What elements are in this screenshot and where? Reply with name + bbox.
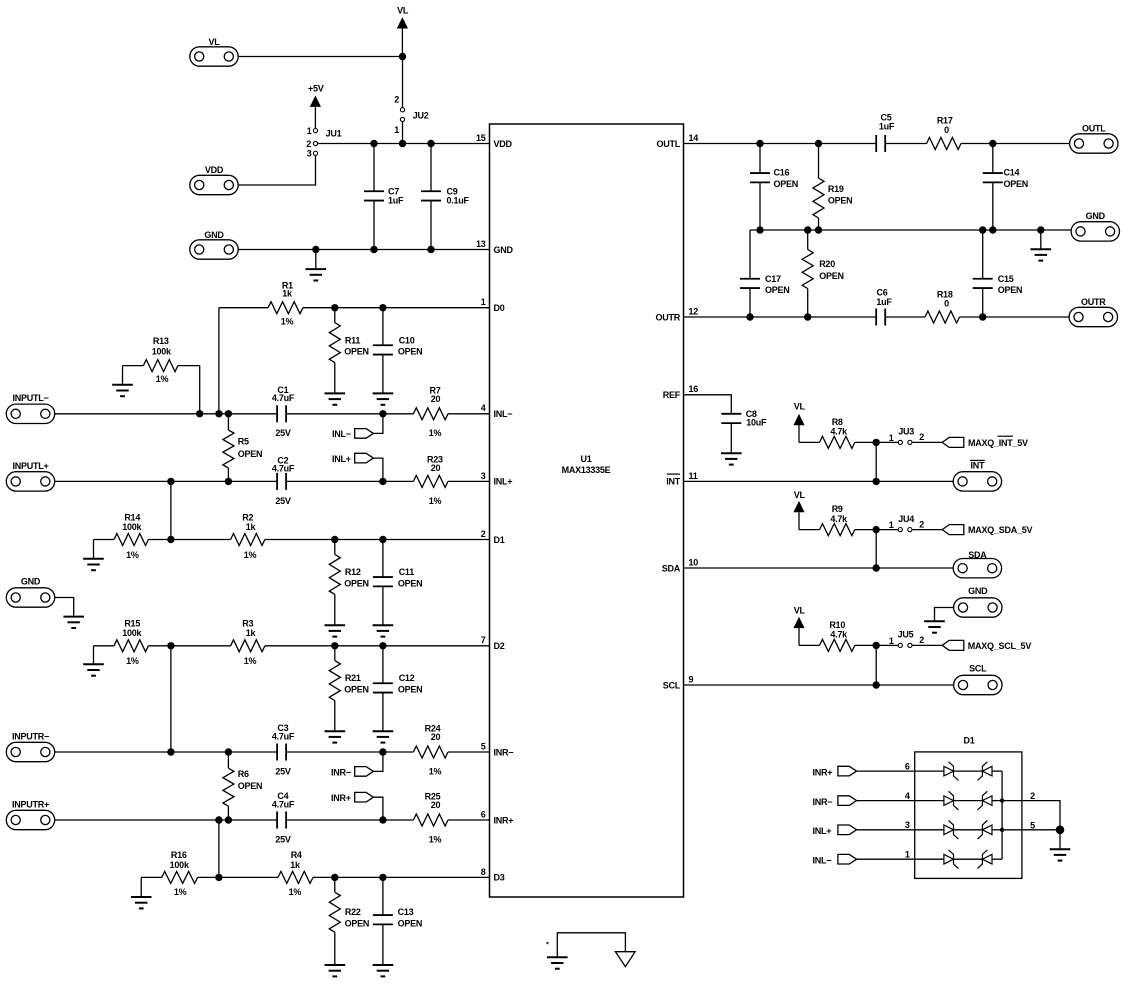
wire D1 to ground <box>1059 830 1061 849</box>
svg-text:OPEN: OPEN <box>345 918 370 928</box>
power flag VL at R9 <box>793 490 805 530</box>
svg-text:JU5: JU5 <box>898 630 914 640</box>
svg-text:4.7k: 4.7k <box>830 427 848 437</box>
diode pair D1 row 3 <box>944 821 1002 840</box>
ground symbol GND rail <box>306 250 327 281</box>
svg-text:1%: 1% <box>156 374 169 384</box>
svg-text:1%: 1% <box>289 887 302 897</box>
junction D0-R11 <box>331 304 338 311</box>
svg-text:100k: 100k <box>122 628 142 638</box>
wire INPUTL+ to C2 <box>55 480 277 482</box>
ground symbol bottom left <box>547 957 568 968</box>
node INL+ flag to D1 <box>813 820 944 836</box>
wire GND rail <box>238 249 489 251</box>
capacitor C11 OPEN <box>373 540 423 626</box>
wire R17 to OUTL pad <box>961 143 1070 145</box>
wire VL pad to JU2 node <box>238 56 402 58</box>
svg-text:20: 20 <box>431 800 441 810</box>
svg-text:VDD: VDD <box>205 165 224 175</box>
resistor R5 OPEN <box>223 414 262 482</box>
svg-text:1%: 1% <box>429 428 442 438</box>
wire SDA pin 10 to pad <box>684 567 954 569</box>
ground symbol under C8 <box>721 453 742 464</box>
junction D1-R12 <box>331 536 338 543</box>
svg-text:OPEN: OPEN <box>344 685 369 695</box>
power flag VL top <box>397 6 409 57</box>
wire R15 to R3 <box>148 645 230 647</box>
wire VL to R9 <box>799 529 820 531</box>
svg-text:1%: 1% <box>126 550 139 560</box>
ground symbol at GND pad left <box>63 617 84 628</box>
resistor R8 <box>820 417 855 449</box>
junction R8-JU3 <box>873 439 880 446</box>
svg-text:12: 12 <box>689 306 699 316</box>
svg-text:INL+: INL+ <box>813 826 832 836</box>
wire GND pad mid to ground <box>935 608 954 622</box>
wire INR+ node down to D3 row <box>218 820 220 877</box>
wire INPUTR- to C3 <box>55 751 277 753</box>
svg-text:R3: R3 <box>242 619 253 629</box>
svg-text:9: 9 <box>689 674 694 684</box>
svg-text:13: 13 <box>476 239 486 249</box>
connector SDA pad <box>953 550 1001 578</box>
svg-text:SDA: SDA <box>662 563 681 573</box>
junction SDA <box>873 564 880 571</box>
svg-text:1: 1 <box>307 126 312 136</box>
svg-text:2: 2 <box>394 95 399 105</box>
svg-text:0: 0 <box>944 125 949 135</box>
jumper JU4 <box>889 514 925 532</box>
svg-text:1k: 1k <box>290 860 301 870</box>
ground symbol under C11 <box>373 625 394 636</box>
svg-text:4.7uF: 4.7uF <box>272 799 295 809</box>
svg-text:2: 2 <box>919 635 924 645</box>
svg-text:INL−: INL− <box>332 429 351 439</box>
svg-text:OPEN: OPEN <box>344 579 369 589</box>
junction INR+-R6 <box>225 816 232 823</box>
junction OUTR-C17 <box>746 313 753 320</box>
svg-text:0.1uF: 0.1uF <box>447 196 470 206</box>
resistor R13 <box>123 336 200 385</box>
svg-text:R9: R9 <box>832 504 843 514</box>
svg-text:1k: 1k <box>282 288 293 298</box>
svg-text:JU3: JU3 <box>898 427 914 437</box>
svg-text:OPEN: OPEN <box>828 195 853 205</box>
svg-text:0: 0 <box>944 299 949 309</box>
svg-text:8: 8 <box>481 867 486 877</box>
wire SCL pin 9 to pad <box>684 684 954 686</box>
wire VL node down to JU2 pin2 <box>402 57 404 108</box>
svg-text:R2: R2 <box>242 513 253 523</box>
junction INL+-vert <box>167 478 174 485</box>
svg-text:C14: C14 <box>1004 168 1020 178</box>
svg-text:25V: 25V <box>275 496 291 506</box>
wire R16 to R4 <box>198 876 278 878</box>
svg-text:10: 10 <box>689 557 699 567</box>
junction bus-C16 <box>756 226 763 233</box>
svg-text:VL: VL <box>208 37 220 47</box>
capacitor C12 OPEN <box>373 646 423 731</box>
ground symbol under R21 <box>325 731 346 742</box>
svg-text:VL: VL <box>794 402 806 412</box>
svg-text:1: 1 <box>889 433 894 443</box>
wire C4 to R25 <box>286 819 413 821</box>
svg-text:2: 2 <box>481 529 486 539</box>
svg-text:REF: REF <box>663 390 681 400</box>
svg-text:20: 20 <box>431 394 441 404</box>
node INL+ flag <box>332 453 383 481</box>
svg-text:C15: C15 <box>998 274 1014 284</box>
svg-text:1%: 1% <box>244 656 257 666</box>
svg-text:R22: R22 <box>345 907 361 917</box>
wire R13 down to INL- line <box>199 366 201 414</box>
wire OUTR pin 12 to C6 <box>684 316 877 318</box>
svg-text:1k: 1k <box>246 628 257 638</box>
junction VDD-C7 <box>370 140 377 147</box>
svg-text:MAXQ_INT_5V: MAXQ_INT_5V <box>968 438 1028 448</box>
ground symbol under R12 <box>325 625 346 636</box>
svg-text:OPEN: OPEN <box>238 449 263 459</box>
svg-text:2: 2 <box>919 519 924 529</box>
svg-text:100k: 100k <box>122 522 142 532</box>
wire D2 node down to INR- row <box>170 646 172 752</box>
junction D2-R21 <box>331 642 338 649</box>
ground arrow bottom <box>615 952 635 967</box>
node MAXQ_SDA_5V flag <box>942 525 1032 536</box>
junction D3-R22 <box>331 874 338 881</box>
diode array D1 box <box>915 752 1022 879</box>
svg-text:3: 3 <box>307 149 312 159</box>
connector VL pad <box>190 37 238 66</box>
svg-text:D2: D2 <box>494 641 505 651</box>
svg-text:1uF: 1uF <box>879 122 895 132</box>
svg-text:SDA: SDA <box>968 550 987 560</box>
svg-text:OPEN: OPEN <box>398 918 423 928</box>
svg-text:R5: R5 <box>238 437 249 447</box>
resistor R3 <box>231 619 265 666</box>
svg-text:OUTL: OUTL <box>657 139 681 149</box>
junction OUTR-R20 <box>804 313 811 320</box>
svg-text:1: 1 <box>889 636 894 646</box>
junction D2-C12 <box>379 642 386 649</box>
resistor R15 <box>94 619 149 666</box>
capacitor C7 <box>364 144 404 250</box>
node INR- flag <box>331 752 383 777</box>
wire OUTL pin 14 to C5 <box>684 143 877 145</box>
junction INL--flag <box>379 410 386 417</box>
wire INPUTL- to C1 <box>55 413 277 415</box>
stray mark <box>546 942 548 944</box>
junction VL node <box>399 53 406 60</box>
svg-text:25V: 25V <box>275 428 291 438</box>
node INR+ flag to D1 <box>813 762 944 778</box>
ground symbol at R16 <box>131 897 152 908</box>
junction VDD-JU2 <box>399 140 406 147</box>
svg-text:GND: GND <box>968 586 988 596</box>
svg-text:1: 1 <box>481 297 486 307</box>
svg-text:VL: VL <box>794 490 806 500</box>
svg-text:OPEN: OPEN <box>774 179 799 189</box>
wire R10 to JU5 <box>855 644 899 646</box>
wire INT pin 11 to pad <box>684 480 954 482</box>
resistor R1 <box>219 280 303 326</box>
svg-text:15: 15 <box>476 133 486 143</box>
wire C2 to R23 <box>286 480 413 482</box>
wire R9 node down to SDA line <box>875 530 877 568</box>
svg-text:4: 4 <box>905 791 910 801</box>
resistor R25 <box>413 792 448 845</box>
svg-text:MAXQ_SCL_5V: MAXQ_SCL_5V <box>968 641 1032 651</box>
junction R10-JU5 <box>873 642 880 649</box>
resistor R11 OPEN <box>329 308 368 394</box>
diode pair D1 row 6 <box>944 762 1002 781</box>
svg-text:4.7k: 4.7k <box>830 630 848 640</box>
junction D0-C10 <box>379 304 386 311</box>
wire C3 to R24 <box>286 751 413 753</box>
svg-text:INL−: INL− <box>494 409 513 419</box>
junction D3-C13 <box>379 874 386 881</box>
ground symbol under D1 <box>1050 849 1071 860</box>
svg-text:OUTR: OUTR <box>656 312 681 322</box>
svg-text:2: 2 <box>306 139 311 149</box>
svg-text:GND: GND <box>204 230 224 240</box>
svg-text:OPEN: OPEN <box>998 285 1023 295</box>
wire R8 to JU3 <box>855 441 899 443</box>
wire D1 pin 5 out <box>1002 820 1060 830</box>
svg-text:INPUTL+: INPUTL+ <box>12 461 48 471</box>
svg-text:INL−: INL− <box>813 856 832 866</box>
connector SCL pad <box>954 664 1002 695</box>
resistor R16 <box>141 850 197 897</box>
node INL- flag <box>332 414 383 439</box>
svg-text:D3: D3 <box>494 873 505 883</box>
junction INR--R6 <box>225 748 232 755</box>
ground symbol under R22 <box>325 965 346 976</box>
wire INPUTR+ to C4 <box>55 819 277 821</box>
wire D1 pin 2 out <box>1002 791 1060 830</box>
svg-text:INPUTR−: INPUTR− <box>12 731 49 741</box>
junction bus-R19 <box>815 226 822 233</box>
wire R10 node down to SCL line <box>875 645 877 685</box>
resistor R21 OPEN <box>329 646 368 731</box>
svg-text:OPEN: OPEN <box>398 685 423 695</box>
svg-text:5: 5 <box>1030 820 1035 830</box>
svg-text:20: 20 <box>431 463 441 473</box>
resistor R22 OPEN <box>329 877 369 965</box>
svg-text:MAX13335E: MAX13335E <box>562 465 611 475</box>
svg-text:D1: D1 <box>494 535 505 545</box>
wire R18 to OUTR pad <box>960 316 1070 318</box>
jumper JU1 <box>306 126 341 158</box>
svg-text:GND: GND <box>494 245 514 255</box>
capacitor C6 <box>876 288 892 326</box>
junction INR+-D3 <box>215 816 222 823</box>
svg-text:1%: 1% <box>429 766 442 776</box>
svg-text:C16: C16 <box>774 168 790 178</box>
svg-text:20: 20 <box>431 732 441 742</box>
capacitor C13 OPEN <box>373 877 422 965</box>
ground symbol at R13 <box>112 385 133 396</box>
ground symbol under C10 <box>373 393 394 404</box>
svg-text:OPEN: OPEN <box>765 285 790 295</box>
junction INL--R13 <box>196 410 203 417</box>
svg-text:25V: 25V <box>275 834 291 844</box>
svg-text:C11: C11 <box>399 567 415 577</box>
capacitor C16 OPEN <box>750 144 798 231</box>
svg-text:1: 1 <box>394 125 399 135</box>
wire C6 to R18 <box>886 316 926 318</box>
svg-text:MAXQ_SDA_5V: MAXQ_SDA_5V <box>968 525 1033 535</box>
svg-text:4: 4 <box>481 403 486 413</box>
wire ground bus <box>750 229 1071 231</box>
svg-text:4.7k: 4.7k <box>830 514 848 524</box>
junction D1 bus row3 <box>1000 828 1004 832</box>
resistor R12 OPEN <box>329 540 368 626</box>
jumper JU2 <box>394 95 429 136</box>
svg-text:INPUTR+: INPUTR+ <box>12 799 49 809</box>
svg-text:R21: R21 <box>345 673 361 683</box>
resistor R10 <box>820 620 855 652</box>
junction D1-C11 <box>379 536 386 543</box>
svg-text:7: 7 <box>481 635 486 645</box>
svg-text:R8: R8 <box>832 417 843 427</box>
junction R9-JU4 <box>873 526 880 533</box>
svg-text:INL+: INL+ <box>332 454 351 464</box>
svg-text:4.7uF: 4.7uF <box>272 464 295 474</box>
svg-text:3: 3 <box>481 471 486 481</box>
svg-text:2: 2 <box>1030 791 1035 801</box>
svg-text:14: 14 <box>689 133 699 143</box>
svg-text:4.7uF: 4.7uF <box>272 393 295 403</box>
svg-text:1uF: 1uF <box>876 297 892 307</box>
wire INPUTL+ node down to D1 row <box>170 481 172 539</box>
svg-text:INT: INT <box>971 461 986 471</box>
wire D0 corner down to INL- node <box>218 308 220 414</box>
svg-text:D1: D1 <box>963 736 974 746</box>
svg-text:OPEN: OPEN <box>398 579 423 589</box>
svg-text:1%: 1% <box>174 887 187 897</box>
junction bus-C15 <box>979 226 986 233</box>
svg-text:1%: 1% <box>429 834 442 844</box>
node INL- flag to D1 <box>813 850 944 866</box>
svg-text:D0: D0 <box>494 303 505 313</box>
svg-text:INPUTL−: INPUTL− <box>12 393 48 403</box>
svg-text:VL: VL <box>794 606 806 616</box>
connector GND pad top <box>190 230 238 259</box>
junction INL+-flag <box>379 478 386 485</box>
svg-text:6: 6 <box>905 762 910 772</box>
capacitor C14 OPEN <box>983 144 1028 231</box>
junction GND-C9 <box>427 246 434 253</box>
capacitor C1 <box>272 385 295 438</box>
svg-text:4.7uF: 4.7uF <box>272 731 295 741</box>
junction OUTL-C16 <box>756 140 763 147</box>
connector INT pad <box>953 460 1001 491</box>
wire VL to R8 <box>799 441 820 443</box>
svg-text:1: 1 <box>905 850 910 860</box>
svg-text:OUTL: OUTL <box>1082 124 1106 134</box>
capacitor C3 <box>272 723 295 776</box>
svg-text:INR+: INR+ <box>331 793 351 803</box>
wire GND pad to ground <box>55 598 74 617</box>
svg-text:GND: GND <box>1086 211 1106 221</box>
svg-text:1%: 1% <box>281 317 294 327</box>
junction INR--vert <box>167 748 174 755</box>
junction OUTR-C15 <box>979 313 986 320</box>
wire JU4 to MAXQ_SDA flag <box>912 529 942 531</box>
diode array D1 label <box>963 736 974 746</box>
svg-text:INL+: INL+ <box>494 477 513 487</box>
resistor R7 <box>413 386 448 439</box>
junction D1 pins 2-5 <box>1056 826 1065 835</box>
svg-text:R11: R11 <box>345 335 361 345</box>
connector INPUTR- pad <box>6 731 54 761</box>
op-amp U1 MAX13335E IC body <box>476 124 698 897</box>
svg-text:1%: 1% <box>126 656 139 666</box>
svg-text:OPEN: OPEN <box>398 347 423 357</box>
wire JU3 to MAXQ_INT flag <box>912 441 942 443</box>
svg-text:+5V: +5V <box>308 84 324 94</box>
ground symbol under C12 <box>373 731 394 742</box>
jumper JU5 <box>889 630 924 648</box>
wire R25 to pin 6 <box>448 819 490 821</box>
node MAXQ_SCL_5V flag <box>942 640 1031 651</box>
wire R7 to pin 4 <box>448 413 490 415</box>
wire R8 node down to INT line <box>875 442 877 481</box>
svg-text:OPEN: OPEN <box>819 271 844 281</box>
junction bus-R20 <box>804 226 811 233</box>
resistor R24 <box>413 724 448 777</box>
svg-text:R6: R6 <box>238 769 249 779</box>
junction D1-vert <box>167 536 174 543</box>
wire JU1 pin3 to VDD pad <box>238 155 315 185</box>
svg-text:R10: R10 <box>829 620 845 630</box>
capacitor C17 OPEN <box>740 230 790 317</box>
svg-text:C17: C17 <box>765 274 781 284</box>
wire VL to R10 <box>799 644 820 646</box>
svg-text:SCL: SCL <box>969 664 987 674</box>
svg-text:1: 1 <box>889 520 894 530</box>
connector VDD pad <box>190 165 238 195</box>
svg-text:R16: R16 <box>171 850 187 860</box>
junction VDD-C9 <box>427 140 434 147</box>
svg-text:R13: R13 <box>153 336 169 346</box>
svg-text:INR−: INR− <box>813 797 833 807</box>
node MAXQ_INT_5V flag <box>942 436 1028 448</box>
svg-text:2: 2 <box>919 432 924 442</box>
svg-text:1%: 1% <box>244 550 257 560</box>
svg-text:INR+: INR+ <box>813 767 833 777</box>
wire VDD rail <box>318 143 490 145</box>
svg-text:JU1: JU1 <box>326 129 342 139</box>
svg-text:SCL: SCL <box>663 680 681 690</box>
capacitor C2 <box>272 455 295 506</box>
resistor R2 <box>231 513 265 560</box>
node INR+ flag <box>331 792 383 820</box>
svg-text:5: 5 <box>481 741 486 751</box>
svg-text:100k: 100k <box>170 860 190 870</box>
wire R9 to JU4 <box>855 529 899 531</box>
junction INR+-flag <box>379 816 386 823</box>
svg-text:1uF: 1uF <box>388 196 404 206</box>
svg-text:R12: R12 <box>345 567 361 577</box>
ground symbol under C13 <box>373 965 394 976</box>
svg-text:1%: 1% <box>429 496 442 506</box>
svg-text:16: 16 <box>689 384 699 394</box>
junction D1 bus row2 <box>1000 798 1004 802</box>
wire R14 to R2 <box>148 539 230 541</box>
junction D3-vert <box>215 874 222 881</box>
